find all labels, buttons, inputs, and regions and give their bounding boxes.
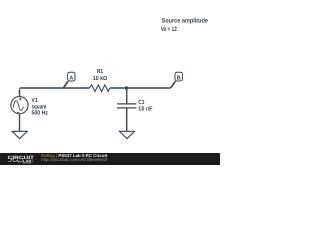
wire: V1 bottom vertical segment to ground [19,114,21,132]
node B [171,72,183,88]
node A [64,72,76,88]
CircuitLab logo [8,155,34,163]
svg-text:LAB: LAB [23,158,31,163]
wire: main horizontal net from V1 to node B [20,87,171,89]
wire: V1 top vertical segment [19,89,21,97]
svg-text:Source amplitude: Source amplitude [162,17,209,24]
resistor R1 [89,85,109,92]
svg-text:V1: V1 [32,97,39,104]
svg-text:B: B [177,76,181,82]
svg-text:10 nF: 10 nF [138,106,153,113]
junction node [125,86,128,89]
V1 labels [32,97,49,117]
svg-text:500 Hz: 500 Hz [32,110,49,117]
svg-text:C1: C1 [138,99,145,106]
svg-text:10 kΩ: 10 kΩ [93,75,108,82]
svg-text:R1: R1 [97,68,104,75]
C1 labels [138,99,153,113]
voltage source V1 [11,97,28,114]
R1 labels [93,68,108,82]
svg-text:Vo = 12: Vo = 12 [161,26,177,33]
svg-text:square: square [32,104,47,110]
ground (below V1) [12,131,27,138]
wire: junction down to C1 [126,88,128,103]
ground (below C1) [119,131,134,138]
svg-text:http://circuitlab.com/c/e23fbe: http://circuitlab.com/c/e23fbeb6562f [41,157,108,162]
watermark bar [0,153,220,165]
annotation: source amplitude text [161,17,209,33]
svg-text:A: A [69,76,73,82]
capacitor C1 [117,104,136,108]
wire: C1 down to ground [126,109,128,132]
